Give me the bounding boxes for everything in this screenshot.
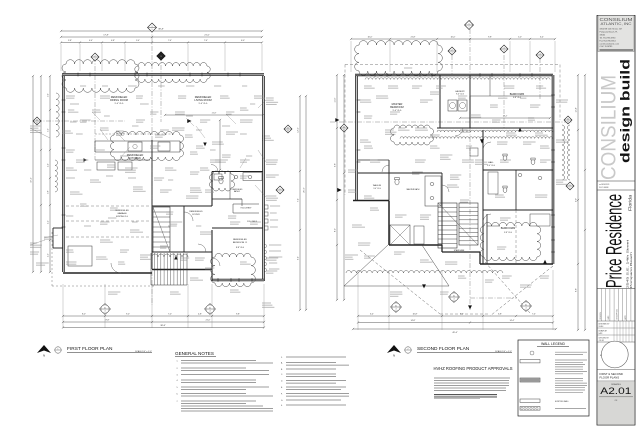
svg-text:9'-8": 9'-8" bbox=[236, 314, 240, 316]
svg-text:WALK-IN: WALK-IN bbox=[373, 184, 382, 187]
svg-text:9'-0": 9'-0" bbox=[126, 314, 130, 316]
svg-text:3350 NE 12th Street, 207: 3350 NE 12th Street, 207 bbox=[600, 28, 623, 31]
svg-text:17'-8": 17'-8" bbox=[105, 320, 110, 322]
svg-text:9'-0": 9'-0" bbox=[576, 198, 578, 202]
svg-text:25'-6": 25'-6" bbox=[304, 187, 306, 192]
svg-text:9'-0" CLG: 9'-0" CLG bbox=[456, 94, 464, 96]
svg-text:CGC 1516789: CGC 1516789 bbox=[600, 46, 614, 48]
svg-text:Fax 954.786.5814: Fax 954.786.5814 bbox=[600, 40, 617, 42]
svg-text:1: 1 bbox=[152, 26, 153, 28]
svg-text:2: 2 bbox=[408, 348, 409, 350]
svg-text:49'-4": 49'-4" bbox=[452, 332, 458, 334]
svg-text:37'-2": 37'-2" bbox=[31, 177, 33, 183]
svg-text:7'-0": 7'-0" bbox=[168, 314, 172, 316]
svg-text:4'-8": 4'-8" bbox=[198, 314, 202, 316]
svg-text:7'-4": 7'-4" bbox=[168, 40, 172, 42]
svg-text:4: 4 bbox=[454, 298, 455, 300]
svg-text:33062: 33062 bbox=[600, 34, 606, 36]
svg-text:10'-0": 10'-0" bbox=[451, 37, 456, 39]
svg-text:FIRST FLOOR PLAN: FIRST FLOOR PLAN bbox=[67, 346, 113, 352]
svg-text:9'-0": 9'-0" bbox=[48, 93, 50, 97]
svg-text:6'-0": 6'-0" bbox=[241, 40, 245, 42]
svg-text:8'-8": 8'-8" bbox=[576, 288, 578, 292]
svg-text:10'-0": 10'-0" bbox=[368, 37, 373, 39]
svg-text:Pompano Beach, FL: Pompano Beach, FL bbox=[600, 31, 619, 33]
svg-text:BEDROOM#2: BEDROOM#2 bbox=[501, 228, 516, 230]
svg-text:3: 3 bbox=[161, 56, 162, 58]
svg-text:6'-4": 6'-4" bbox=[298, 256, 300, 260]
svg-text:6'-8": 6'-8" bbox=[498, 314, 502, 316]
svg-text:2: 2 bbox=[452, 50, 453, 52]
svg-text:A2.01: A2.01 bbox=[600, 386, 631, 397]
svg-text:9'-0" CLG: 9'-0" CLG bbox=[373, 188, 381, 190]
svg-text:9'-4" CLG: 9'-4" CLG bbox=[115, 103, 124, 105]
svg-text:7'-4": 7'-4" bbox=[298, 198, 300, 202]
svg-text:5'-2": 5'-2" bbox=[48, 128, 50, 132]
svg-text:EXISTING CLG: EXISTING CLG bbox=[116, 216, 129, 218]
svg-text:ATLANTIC, INC: ATLANTIC, INC bbox=[601, 22, 633, 26]
svg-text:Price Residence: Price Residence bbox=[602, 194, 627, 288]
svg-text:N: N bbox=[393, 354, 395, 358]
svg-text:2: 2 bbox=[95, 58, 96, 60]
svg-text:ROD & SHELF: ROD & SHELF bbox=[241, 208, 252, 210]
svg-text:HALL: HALL bbox=[488, 161, 494, 164]
svg-text:14'-4": 14'-4" bbox=[510, 320, 515, 322]
svg-text:1: 1 bbox=[469, 26, 470, 28]
svg-text:4: 4 bbox=[396, 308, 397, 310]
svg-text:N: N bbox=[43, 354, 45, 358]
svg-text:1: 1 bbox=[58, 348, 59, 350]
svg-text:14'-8": 14'-8" bbox=[411, 320, 416, 322]
svg-text:4: 4 bbox=[210, 310, 211, 312]
svg-text:1: 1 bbox=[152, 29, 153, 31]
svg-text:3: 3 bbox=[504, 48, 505, 50]
svg-text:SCALE 1/4" = 1'-0": SCALE 1/4" = 1'-0" bbox=[135, 350, 152, 353]
svg-text:21'-0": 21'-0" bbox=[206, 320, 211, 322]
svg-text:REMODELED: REMODELED bbox=[189, 211, 203, 213]
svg-text:SECOND FLOOR PLAN: SECOND FLOOR PLAN bbox=[417, 346, 470, 352]
svg-text:21'-8": 21'-8" bbox=[411, 37, 416, 39]
svg-text:10'-8": 10'-8" bbox=[413, 314, 418, 316]
svg-text:4'-2": 4'-2" bbox=[48, 253, 50, 257]
svg-text:GARAGE: GARAGE bbox=[117, 212, 127, 215]
svg-text:12'-0": 12'-0" bbox=[298, 127, 300, 132]
svg-text:17'-8": 17'-8" bbox=[103, 35, 109, 37]
svg-text:6'-4": 6'-4" bbox=[540, 37, 544, 39]
svg-text:7'-4": 7'-4" bbox=[532, 314, 536, 316]
svg-text:9'-8": 9'-8" bbox=[488, 37, 492, 39]
svg-text:8'-0": 8'-0" bbox=[335, 228, 337, 232]
svg-text:9'-0" CLG: 9'-0" CLG bbox=[487, 165, 495, 167]
svg-text:EXISTING WALL: EXISTING WALL bbox=[555, 400, 569, 403]
svg-text:12'-4": 12'-4" bbox=[576, 107, 578, 112]
svg-text:HVHZ ROOFING PRODUCT APPROVALS: HVHZ ROOFING PRODUCT APPROVALS bbox=[434, 366, 513, 371]
svg-text:2: 2 bbox=[452, 52, 453, 54]
svg-text:3'-8": 3'-8" bbox=[68, 40, 72, 42]
svg-text:STAIRCASE: STAIRCASE bbox=[454, 249, 465, 252]
svg-text:11'-0": 11'-0" bbox=[335, 97, 337, 102]
svg-text:1: 1 bbox=[469, 24, 470, 26]
svg-text:8'-8" CLG: 8'-8" CLG bbox=[236, 247, 245, 249]
svg-text:DESIGNED BY: DESIGNED BY bbox=[599, 323, 611, 325]
svg-text:DESCRIPTION: DESCRIPTION bbox=[617, 309, 619, 319]
svg-text:2: 2 bbox=[95, 56, 96, 58]
svg-text:con@consiliurnlc.com: con@consiliurnlc.com bbox=[600, 43, 620, 45]
svg-text:REVISION: REVISION bbox=[600, 312, 602, 319]
svg-text:BATH#1: BATH#1 bbox=[234, 190, 240, 193]
svg-text:4'-0": 4'-0" bbox=[48, 163, 50, 167]
svg-text:DINING ROOM: DINING ROOM bbox=[110, 98, 128, 102]
svg-text:CHECKED BY: CHECKED BY bbox=[599, 337, 610, 339]
svg-text:4: 4 bbox=[105, 310, 106, 312]
svg-text:Pompano Beach: Pompano Beach bbox=[629, 251, 633, 288]
svg-text:3: 3 bbox=[504, 50, 505, 52]
svg-text:KITCHEN: KITCHEN bbox=[129, 156, 141, 160]
svg-text:WALL LEGEND: WALL LEGEND bbox=[541, 342, 565, 346]
svg-text:REMODELED: REMODELED bbox=[233, 239, 247, 241]
svg-text:6'-4": 6'-4" bbox=[370, 314, 374, 316]
svg-text:5'-4": 5'-4" bbox=[136, 40, 140, 42]
svg-text:BEDROOM #1: BEDROOM #1 bbox=[233, 242, 248, 244]
svg-text:38'-8": 38'-8" bbox=[160, 325, 166, 327]
svg-text:LIVING ROOM: LIVING ROOM bbox=[194, 98, 211, 102]
svg-text:Florida: Florida bbox=[628, 194, 633, 211]
svg-text:9'-8": 9'-8" bbox=[335, 163, 337, 167]
svg-text:4'-4": 4'-4" bbox=[48, 220, 50, 224]
svg-text:8'-0": 8'-0" bbox=[82, 314, 86, 316]
svg-text:5'-0": 5'-0" bbox=[518, 37, 522, 39]
svg-text:4: 4 bbox=[526, 307, 527, 309]
svg-text:7'-4": 7'-4" bbox=[204, 40, 208, 42]
svg-text:DOC 0809F: DOC 0809F bbox=[599, 187, 609, 189]
svg-text:4: 4 bbox=[540, 56, 541, 58]
svg-text:FOYER: FOYER bbox=[192, 214, 200, 216]
svg-text:SCALE 1/4" = 1'-0": SCALE 1/4" = 1'-0" bbox=[495, 350, 512, 353]
svg-text:21'-8": 21'-8" bbox=[212, 113, 217, 115]
svg-text:18'-4": 18'-4" bbox=[503, 116, 508, 118]
svg-text:GENERAL NOTES: GENERAL NOTES bbox=[175, 351, 214, 356]
svg-text:MASTER BATH: MASTER BATH bbox=[407, 188, 420, 191]
svg-text:design build: design build bbox=[618, 59, 633, 163]
svg-text:4: 4 bbox=[540, 54, 541, 56]
svg-text:9'-4" CLG: 9'-4" CLG bbox=[199, 103, 208, 105]
svg-text:21'-0": 21'-0" bbox=[204, 35, 210, 37]
svg-text:xx 34567678: xx 34567678 bbox=[599, 184, 609, 186]
svg-text:Tel. 954.786.3930: Tel. 954.786.3930 bbox=[600, 37, 617, 39]
svg-text:9'-8" CLG: 9'-8" CLG bbox=[504, 232, 512, 234]
svg-text:4'-8": 4'-8" bbox=[111, 40, 115, 42]
svg-text:4'-4": 4'-4" bbox=[89, 40, 93, 42]
svg-text:BEDROOM: BEDROOM bbox=[390, 105, 403, 109]
svg-text:3'-8": 3'-8" bbox=[48, 190, 50, 194]
svg-text:FLOOR PLANS: FLOOR PLANS bbox=[600, 376, 620, 380]
svg-text:38'-8": 38'-8" bbox=[158, 29, 164, 31]
